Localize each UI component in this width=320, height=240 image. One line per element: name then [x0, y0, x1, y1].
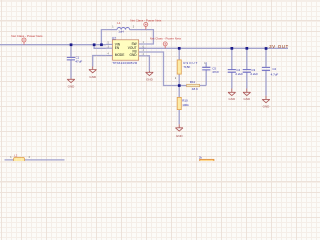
svg-text:2.2uF: 2.2uF	[250, 72, 258, 76]
op: IC U2 body	[113, 40, 139, 60]
svg-text:48.9: 48.9	[192, 87, 198, 91]
wire IC GND pin to gnd	[146, 56, 150, 71]
svg-text:1: 1	[112, 27, 114, 29]
svg-text:TPS62203DBVR: TPS62203DBVR	[112, 61, 138, 65]
svg-text:Net Class - Power Nets: Net Class - Power Nets	[130, 19, 162, 23]
capacitor C2 plates	[262, 67, 270, 70]
svg-text:2: 2	[175, 78, 177, 80]
svg-text:C2: C2	[272, 67, 276, 71]
svg-text:GND: GND	[68, 85, 76, 89]
svg-text:100k: 100k	[182, 103, 189, 107]
ground G7 (R10)	[175, 124, 183, 131]
wire bottom-left net	[5, 159, 65, 161]
wire EN jog	[94, 45, 106, 49]
svg-text:47uF: 47uF	[75, 60, 82, 64]
junction node R9 tap	[178, 47, 181, 50]
svg-text:R10: R10	[182, 98, 188, 102]
svg-text:3V OUT: 3V OUT	[269, 44, 289, 49]
svg-text:GND: GND	[89, 75, 97, 79]
pin SW stub	[139, 43, 146, 45]
svg-text:4.7uF: 4.7uF	[271, 73, 279, 77]
ferrite bead L2 body	[14, 157, 25, 162]
capacitor C5 plates	[202, 67, 210, 70]
resistor R11 horizontal	[187, 84, 200, 86]
wire VIN main rail	[0, 44, 106, 46]
junction node FB divider	[178, 84, 181, 87]
ground G5 (C3)	[243, 89, 251, 96]
pin GND stub	[139, 55, 146, 57]
junction node EN tap	[93, 43, 96, 46]
svg-text:GND: GND	[228, 97, 236, 101]
power directive circle 1	[22, 38, 26, 45]
ground G2 (MODE)	[89, 67, 97, 73]
wire L1 to SW	[130, 30, 154, 44]
wire C1 drop	[70, 45, 72, 79]
svg-text:L1: L1	[117, 21, 121, 25]
pin VIN stub	[106, 43, 113, 45]
power directive circle 2	[144, 22, 148, 29]
resistor R12 partial bottom right	[200, 159, 214, 163]
junction node C4 tap	[231, 47, 234, 50]
pin MODE stub	[106, 55, 113, 57]
wire C4 drop	[231, 48, 233, 88]
svg-text:U2: U2	[112, 36, 116, 40]
svg-text:2: 2	[29, 157, 31, 159]
capacitor C3 plates	[243, 70, 251, 73]
svg-text:GND: GND	[263, 104, 271, 108]
junction node L1 tap	[100, 43, 103, 46]
pin VOUT stub	[139, 47, 146, 49]
svg-text:GND: GND	[146, 77, 154, 81]
svg-text:715K: 715K	[183, 65, 190, 69]
pin EN stub	[106, 47, 113, 49]
wire C2 drop	[265, 48, 267, 95]
svg-text:Net Class - Power Nets: Net Class - Power Nets	[11, 34, 43, 38]
resistor R10	[177, 97, 181, 109]
wire VOUT rail	[139, 47, 288, 49]
svg-text:1: 1	[10, 157, 12, 159]
resistor R9	[177, 60, 181, 74]
svg-text:2.2uF: 2.2uF	[235, 72, 243, 76]
wire R11 leads	[179, 85, 206, 87]
wire R9 drop and divider	[178, 48, 180, 124]
ground G3 (IC GND)	[146, 71, 154, 76]
ground G4 (C4)	[228, 89, 236, 96]
svg-text:GND: GND	[130, 53, 138, 57]
junction node on VIN wire at C1	[70, 43, 73, 46]
wire C5 leads	[205, 62, 207, 85]
svg-text:R11: R11	[190, 80, 196, 84]
wire riser to L1	[101, 30, 117, 45]
inductor L1 coil	[117, 28, 130, 30]
ground G6 (C2)	[262, 96, 270, 103]
svg-text:47nF: 47nF	[212, 70, 219, 74]
capacitor C4 plates	[228, 70, 236, 73]
wire C3 drop	[246, 48, 248, 88]
pin FB stub	[139, 51, 146, 53]
wire MODE to gnd	[93, 56, 106, 67]
junction node C2 tap	[265, 47, 268, 50]
ground G1 (C1)	[67, 78, 75, 82]
svg-text:GND: GND	[243, 97, 251, 101]
svg-text:1uH: 1uH	[118, 30, 124, 34]
svg-text:EN: EN	[115, 46, 120, 50]
wire FB path	[146, 52, 179, 86]
capacitor C1 plates	[67, 57, 75, 60]
svg-text:Net Class - Power Nets: Net Class - Power Nets	[150, 37, 182, 41]
svg-text:2: 2	[133, 27, 135, 29]
junction node C3 tap	[246, 47, 249, 50]
power directive circle 3	[163, 42, 167, 48]
svg-text:MODE: MODE	[115, 53, 125, 57]
svg-text:L2: L2	[14, 154, 18, 158]
svg-text:GND: GND	[176, 134, 184, 138]
